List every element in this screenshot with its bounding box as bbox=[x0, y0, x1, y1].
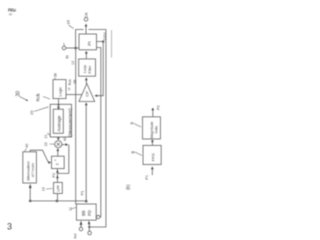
svg-text:Ref: Ref bbox=[74, 233, 78, 238]
svg-text:40: 40 bbox=[25, 144, 29, 148]
node Pa : bottom port a bbox=[79, 227, 83, 231]
wire P1 into FFO bbox=[151, 168, 153, 175]
svg-text:10: 10 bbox=[42, 187, 46, 191]
wire Logic to triangle bbox=[66, 94, 82, 96]
svg-text:16: 16 bbox=[66, 19, 71, 24]
mixer X1 (multiplier) 22 bbox=[55, 141, 62, 148]
node inversion bubble on PD right bbox=[97, 215, 100, 218]
svg-text:Logic: Logic bbox=[57, 87, 62, 97]
svg-text:8: 8 bbox=[131, 151, 136, 154]
wire rail up into Attenuation bbox=[29, 188, 31, 201]
wire In clock down to PD bbox=[75, 48, 77, 204]
svg-text:CP: CP bbox=[84, 91, 89, 97]
block Magnitude/Volts 9 bbox=[143, 117, 161, 139]
node Pb : bottom port b bbox=[88, 231, 92, 235]
svg-text:LPF: LPF bbox=[56, 184, 60, 191]
svg-text:42: 42 bbox=[63, 137, 67, 141]
svg-text:(a): (a) bbox=[9, 13, 12, 16]
wire port In to junction and PI bbox=[66, 47, 79, 49]
svg-text:11: 11 bbox=[69, 207, 73, 211]
wire top distribution run bbox=[76, 30, 106, 228]
node J2 bbox=[102, 40, 105, 43]
block Loop Filter 12 bbox=[79, 59, 96, 76]
svg-text:P2: P2 bbox=[156, 105, 160, 110]
label 21 bbox=[44, 133, 50, 139]
svg-text:P1: P1 bbox=[145, 175, 149, 180]
svg-text:(Measurement): (Measurement) bbox=[68, 108, 73, 137]
figure label 3 (bottom left) bbox=[7, 222, 12, 232]
block FFO 8 bbox=[143, 145, 161, 164]
block Attenuation of f_nom 40 bbox=[23, 152, 37, 183]
svg-text:22: 22 bbox=[44, 142, 48, 146]
svg-text:P2: P2 bbox=[52, 173, 56, 178]
block 2^x scaler 21 bbox=[52, 156, 65, 168]
wire Attenuation to 2^x (diagonal) bbox=[30, 150, 48, 162]
block PI (phase interpolator) bbox=[79, 34, 97, 50]
label 8 bbox=[131, 151, 142, 156]
svg-text:3: 3 bbox=[14, 7, 17, 12]
svg-text:9: 9 bbox=[130, 122, 135, 125]
block Average 20 bbox=[53, 109, 63, 133]
wire PI out2 long feedback run to PD bbox=[97, 48, 101, 218]
wire 2^x to mixer bbox=[57, 150, 59, 156]
svg-text:FFO: FFO bbox=[150, 153, 155, 161]
svg-text:Rclk: Rclk bbox=[36, 92, 41, 101]
label 9 bbox=[130, 122, 142, 128]
svg-text:21: 21 bbox=[44, 134, 48, 138]
svg-text:BB: BB bbox=[81, 210, 86, 216]
node CK output port bbox=[84, 18, 88, 22]
svg-text:30: 30 bbox=[16, 91, 22, 97]
wire PI out1 to vertical run bbox=[97, 42, 104, 96]
wire Measurement to mixer bbox=[57, 137, 59, 139]
wire triangle apex to Loop Filter bbox=[85, 80, 87, 84]
wire FFO to Magnitude bbox=[151, 141, 153, 146]
wire PI output to CK port bbox=[85, 26, 87, 35]
svg-text:Filter: Filter bbox=[88, 65, 92, 74]
svg-text:CK: CK bbox=[85, 12, 89, 18]
svg-text:Loop: Loop bbox=[83, 65, 87, 73]
svg-text:Volts: Volts bbox=[154, 126, 158, 134]
svg-text:In: In bbox=[64, 54, 69, 58]
label 20 bbox=[29, 107, 49, 115]
wire P1 riser PD to triangle bbox=[85, 105, 87, 202]
label 22 bbox=[44, 142, 55, 146]
wire Logic to Measurement bbox=[58, 99, 60, 110]
label 36 bbox=[53, 73, 57, 79]
svg-text:36: 36 bbox=[53, 73, 57, 77]
wire arrow into triangle right bbox=[94, 94, 97, 97]
svg-text:20: 20 bbox=[29, 110, 34, 115]
amplifier CP (charge-pump triangle) 38 bbox=[79, 84, 95, 102]
wire bottom P1 rail bbox=[30, 200, 86, 202]
svg-text:38: 38 bbox=[73, 80, 77, 84]
block BB PD (bang-bang phase detector) 11 bbox=[76, 204, 96, 220]
svg-text:32: 32 bbox=[67, 87, 71, 91]
svg-text:of f nom: of f nom bbox=[30, 163, 35, 177]
wire mixer run down to LPF top bbox=[57, 145, 69, 174]
wire Magnitude to P2 out bbox=[152, 110, 154, 117]
block Measurement 21 bbox=[50, 104, 72, 137]
svg-text:PI: PI bbox=[87, 41, 92, 45]
svg-text:PD: PD bbox=[87, 210, 92, 216]
svg-text:P1: P1 bbox=[81, 191, 85, 195]
label 10 bbox=[42, 187, 53, 191]
node J1 bbox=[74, 47, 77, 50]
label 30 bbox=[16, 91, 29, 101]
label 16 bbox=[66, 19, 74, 28]
svg-text:x: x bbox=[53, 159, 57, 161]
wire LPF up to 2^x bbox=[56, 169, 58, 183]
block Logic 36 bbox=[53, 80, 66, 99]
block LPF 10 bbox=[54, 182, 63, 193]
label 11 bbox=[69, 207, 76, 211]
svg-text:3: 3 bbox=[7, 222, 12, 232]
wire LPF down to P1 rail bbox=[57, 194, 59, 201]
svg-text:Average: Average bbox=[57, 115, 62, 132]
wire mixer output right bbox=[62, 144, 67, 146]
svg-text:(b): (b) bbox=[126, 184, 131, 190]
svg-text:2: 2 bbox=[54, 162, 59, 165]
node Rclk (floating net label) bbox=[36, 92, 51, 101]
svg-text:CGU: CGU bbox=[103, 32, 107, 40]
node In (reference clock input port) bbox=[62, 43, 69, 59]
label 40 bbox=[25, 144, 30, 152]
sheet corner label FIG bbox=[8, 7, 17, 16]
wire faint stub right bbox=[111, 30, 113, 58]
wire Loop Filter to PI bbox=[85, 53, 87, 59]
svg-text:Rok: Rok bbox=[68, 79, 72, 85]
svg-text:12: 12 bbox=[71, 61, 75, 65]
